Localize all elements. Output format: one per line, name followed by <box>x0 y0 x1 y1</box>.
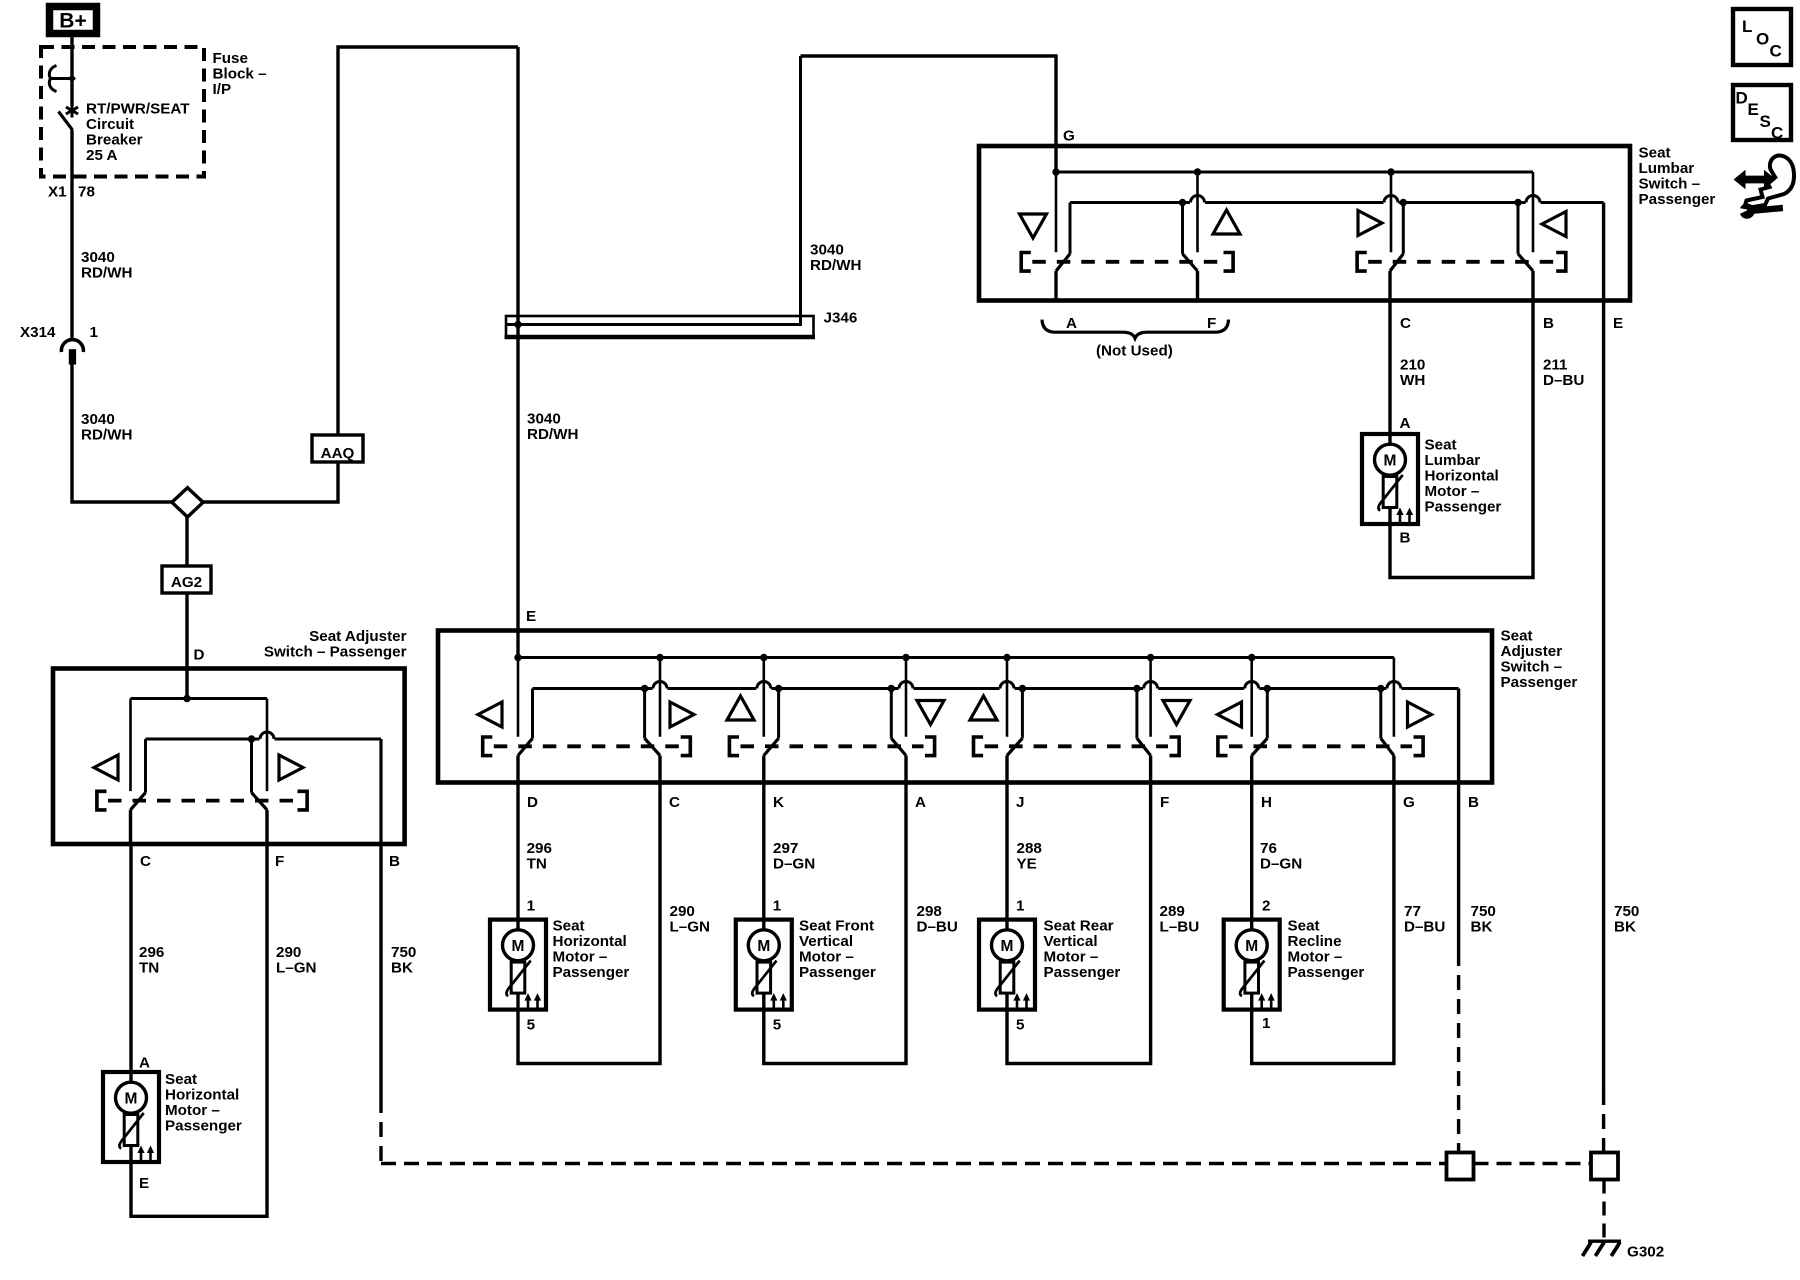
svg-text:E: E <box>526 608 536 625</box>
svg-text:750: 750 <box>1471 903 1496 920</box>
svg-text:BK: BK <box>1614 919 1636 936</box>
svg-text:Fuse: Fuse <box>213 50 248 67</box>
svg-text:D–BU: D–BU <box>1543 372 1584 389</box>
svg-text:D: D <box>1736 89 1748 108</box>
svg-text:Passenger: Passenger <box>165 1118 242 1135</box>
svg-text:Circuit: Circuit <box>86 116 134 133</box>
svg-text:290: 290 <box>670 903 695 920</box>
svg-text:L–BU: L–BU <box>1160 919 1200 936</box>
svg-text:288: 288 <box>1017 840 1042 857</box>
svg-text:C: C <box>1771 124 1783 143</box>
svg-text:YE: YE <box>1017 856 1037 873</box>
svg-text:296: 296 <box>527 840 552 857</box>
svg-text:F: F <box>1207 315 1216 332</box>
svg-text:Seat: Seat <box>1639 145 1671 162</box>
svg-text:F: F <box>1160 794 1169 811</box>
svg-text:Seat Adjuster: Seat Adjuster <box>309 628 406 645</box>
svg-text:L–GN: L–GN <box>276 960 317 977</box>
svg-text:H: H <box>1261 794 1272 811</box>
svg-text:210: 210 <box>1400 357 1425 374</box>
svg-text:WH: WH <box>1400 372 1425 389</box>
svg-text:D–BU: D–BU <box>1404 919 1445 936</box>
svg-text:290: 290 <box>276 944 301 961</box>
svg-text:A: A <box>139 1055 150 1072</box>
svg-text:Passenger: Passenger <box>553 964 630 981</box>
svg-text:298: 298 <box>917 903 942 920</box>
svg-text:3040: 3040 <box>81 411 115 428</box>
svg-text:Switch –: Switch – <box>1501 659 1563 676</box>
svg-text:E: E <box>139 1175 149 1192</box>
svg-text:Seat: Seat <box>553 918 585 935</box>
svg-text:Horizontal: Horizontal <box>1425 468 1499 485</box>
svg-text:A: A <box>915 794 926 811</box>
svg-text:BK: BK <box>391 960 413 977</box>
svg-text:Breaker: Breaker <box>86 132 143 149</box>
svg-text:B: B <box>1543 315 1554 332</box>
svg-text:211: 211 <box>1543 357 1568 374</box>
svg-text:Vertical: Vertical <box>799 933 853 950</box>
svg-text:1: 1 <box>527 898 536 915</box>
svg-text:Motor –: Motor – <box>1425 483 1480 500</box>
svg-text:Horizontal: Horizontal <box>553 933 627 950</box>
svg-text:Block –: Block – <box>213 66 267 83</box>
svg-text:296: 296 <box>139 944 164 961</box>
svg-text:1: 1 <box>1262 1015 1271 1032</box>
svg-text:O: O <box>1756 30 1769 49</box>
svg-text:J: J <box>1016 794 1024 811</box>
svg-text:G: G <box>1403 794 1415 811</box>
svg-text:5: 5 <box>1016 1017 1025 1034</box>
svg-text:Lumbar: Lumbar <box>1425 452 1481 469</box>
svg-text:RD/WH: RD/WH <box>81 265 132 282</box>
svg-text:G: G <box>1063 128 1075 145</box>
svg-text:X314: X314 <box>20 324 56 341</box>
svg-text:5: 5 <box>773 1017 782 1034</box>
svg-text:C: C <box>1400 315 1411 332</box>
svg-text:D–BU: D–BU <box>917 919 958 936</box>
svg-text:289: 289 <box>1160 903 1185 920</box>
svg-text:750: 750 <box>1614 903 1639 920</box>
svg-text:E: E <box>1613 315 1623 332</box>
svg-text:TN: TN <box>527 856 547 873</box>
svg-text:F: F <box>275 853 284 870</box>
svg-text:3040: 3040 <box>527 411 561 428</box>
svg-text:Motor –: Motor – <box>799 949 854 966</box>
svg-text:C: C <box>669 794 680 811</box>
svg-text:Switch – Passenger: Switch – Passenger <box>264 644 407 661</box>
svg-text:I/P: I/P <box>213 81 232 98</box>
svg-text:AAQ: AAQ <box>321 445 355 462</box>
svg-text:C: C <box>140 853 151 870</box>
svg-text:5: 5 <box>527 1017 536 1034</box>
svg-text:TN: TN <box>139 960 159 977</box>
svg-text:Seat: Seat <box>1288 918 1320 935</box>
svg-text:D: D <box>527 794 538 811</box>
svg-text:1: 1 <box>90 324 99 341</box>
svg-text:Vertical: Vertical <box>1044 933 1098 950</box>
svg-text:C: C <box>1770 42 1782 61</box>
svg-text:1: 1 <box>1016 898 1025 915</box>
svg-text:Recline: Recline <box>1288 933 1342 950</box>
svg-text:D–GN: D–GN <box>1260 856 1302 873</box>
svg-text:Passenger: Passenger <box>1639 191 1716 208</box>
svg-text:Seat Front: Seat Front <box>799 918 874 935</box>
svg-text:D: D <box>194 647 205 664</box>
svg-text:Lumbar: Lumbar <box>1639 160 1695 177</box>
svg-text:Seat Rear: Seat Rear <box>1044 918 1114 935</box>
svg-text:S: S <box>1760 112 1771 131</box>
svg-text:Motor –: Motor – <box>1288 949 1343 966</box>
svg-text:AG2: AG2 <box>171 574 202 591</box>
svg-text:K: K <box>773 794 784 811</box>
svg-text:RT/PWR/SEAT: RT/PWR/SEAT <box>86 101 190 118</box>
svg-text:J346: J346 <box>824 310 858 327</box>
svg-text:3040: 3040 <box>81 249 115 266</box>
svg-text:750: 750 <box>391 944 416 961</box>
svg-text:Passenger: Passenger <box>1501 674 1578 691</box>
svg-text:Passenger: Passenger <box>799 964 876 981</box>
svg-text:2: 2 <box>1262 898 1270 915</box>
svg-text:L–GN: L–GN <box>670 919 711 936</box>
svg-text:1: 1 <box>773 898 782 915</box>
svg-text:B: B <box>1400 530 1411 547</box>
svg-text:78: 78 <box>78 184 95 201</box>
svg-text:Motor –: Motor – <box>1044 949 1099 966</box>
svg-text:Adjuster: Adjuster <box>1501 643 1563 660</box>
svg-text:A: A <box>1066 315 1077 332</box>
svg-text:G302: G302 <box>1627 1244 1664 1261</box>
svg-text:Passenger: Passenger <box>1425 499 1502 516</box>
svg-text:Motor –: Motor – <box>165 1102 220 1119</box>
svg-text:297: 297 <box>773 840 798 857</box>
svg-text:77: 77 <box>1404 903 1421 920</box>
svg-text:Passenger: Passenger <box>1044 964 1121 981</box>
svg-text:RD/WH: RD/WH <box>810 257 861 274</box>
svg-text:Horizontal: Horizontal <box>165 1087 239 1104</box>
svg-text:E: E <box>1748 100 1759 119</box>
svg-text:D–GN: D–GN <box>773 856 815 873</box>
svg-text:RD/WH: RD/WH <box>527 426 578 443</box>
svg-text:L: L <box>1742 17 1752 36</box>
svg-text:BK: BK <box>1471 919 1493 936</box>
svg-text:Seat: Seat <box>1501 628 1533 645</box>
svg-text:76: 76 <box>1260 840 1277 857</box>
svg-text:B+: B+ <box>59 10 86 33</box>
svg-text:Seat: Seat <box>165 1071 197 1088</box>
svg-text:Passenger: Passenger <box>1288 964 1365 981</box>
svg-text:(Not Used): (Not Used) <box>1096 343 1173 360</box>
svg-text:B: B <box>389 853 400 870</box>
svg-text:B: B <box>1468 794 1479 811</box>
svg-text:Switch –: Switch – <box>1639 176 1701 193</box>
svg-text:X1: X1 <box>48 184 67 201</box>
svg-text:Seat: Seat <box>1425 437 1457 454</box>
svg-text:Motor –: Motor – <box>553 949 608 966</box>
svg-text:3040: 3040 <box>810 242 844 259</box>
svg-text:25 A: 25 A <box>86 147 118 164</box>
svg-text:RD/WH: RD/WH <box>81 427 132 444</box>
svg-text:A: A <box>1400 415 1411 432</box>
